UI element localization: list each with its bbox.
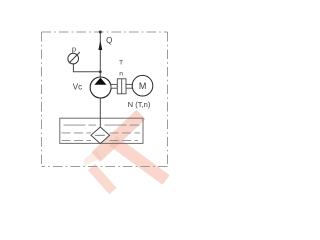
node gauge junction [99,70,102,73]
svg-text:p: p [72,45,76,54]
svg-text:T: T [119,59,123,66]
watermark backslash stroke [109,136,169,185]
pump triangle [94,78,106,85]
shaft left [111,84,117,88]
tank fluid dashes row 2 [62,132,141,134]
pump U1 [90,77,111,98]
tank T1 [60,118,143,143]
svg-text:Vc: Vc [73,82,82,91]
svg-text:n: n [119,70,123,77]
gauge needle line [69,52,80,63]
wire gauge tap [73,64,99,72]
svg-text:Q: Q [106,36,112,45]
watermark lower stroke [88,164,117,194]
motor M1 [132,75,153,96]
svg-text:N (T,n): N (T,n) [128,100,151,109]
flow arrow Q [98,41,102,51]
coupling C1 [117,79,126,94]
tank fluid dashes row 3 [62,140,139,142]
filter inner dash [95,134,105,136]
watermark slash stroke [92,110,146,162]
wire suction pipe pump to filter [99,98,101,127]
filter F1 [91,127,110,144]
svg-text:M: M [139,81,147,91]
wire discharge pipe pump to top [99,32,101,78]
node top junction [99,31,102,34]
coupling middle line [121,79,123,94]
watermark slash tail fade [84,150,102,166]
shaft right [126,84,132,88]
tank fluid dashes row 1 [64,124,140,126]
pressure gauge P [68,53,79,64]
boundary dash-dot frame [42,31,168,33]
